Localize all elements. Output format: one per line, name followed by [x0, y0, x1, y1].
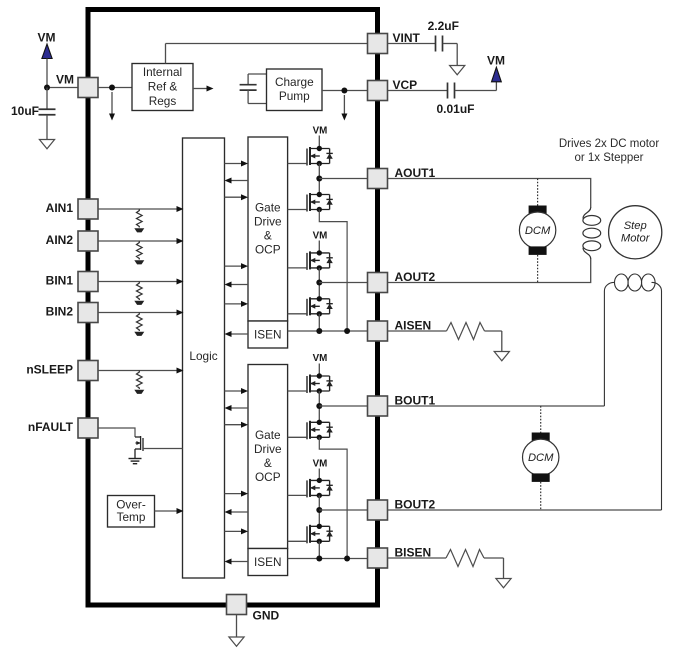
capacitor 2.2uF [388, 43, 436, 45]
svg-text:nFAULT: nFAULT [28, 420, 74, 434]
capacitor 0.01uF [388, 90, 448, 92]
svg-text:Logic: Logic [189, 349, 217, 363]
svg-text:Gate: Gate [255, 201, 281, 215]
svg-text:Drive: Drive [254, 442, 282, 456]
wire ISEN A to Logic [232, 333, 249, 335]
transistor M6 (B low-side 1) [307, 420, 333, 440]
wire M2 source to ISEN bus [319, 210, 347, 332]
wire AOUT2 bus [388, 258, 591, 282]
inductor L (stepper winding B) [604, 282, 614, 406]
wire M7 to M8 (BOUT2 node) [318, 495, 320, 526]
svg-text:AIN1: AIN1 [46, 201, 74, 215]
wire nSLEEP to Logic [98, 370, 177, 372]
svg-text:or 1x Stepper: or 1x Stepper [574, 152, 643, 164]
wire Logic to Gate Drive B (ctrl) [225, 390, 242, 392]
wire GND pin to ground [236, 615, 238, 638]
ground (AIN2 pulldown) [134, 260, 144, 264]
junction [44, 85, 50, 91]
pin AISEN [368, 321, 388, 341]
svg-text:Regs: Regs [149, 94, 177, 108]
block Logic [183, 138, 225, 578]
transistor Q1 (open-drain nFAULT, mirrored) [135, 436, 143, 458]
wire Q1 gate to Logic [143, 448, 183, 450]
svg-text:ISEN: ISEN [254, 555, 282, 569]
block ISEN (A) [248, 321, 288, 348]
wire AOUT1 bus [388, 179, 591, 209]
wire nFAULT to transistor drain [98, 428, 135, 437]
wire charge pump to VCP [322, 90, 368, 92]
wire M4 source to ISEN bus [318, 314, 320, 331]
motor DCM (B) [540, 406, 542, 433]
svg-text:VM: VM [313, 459, 328, 470]
svg-text:OCP: OCP [255, 243, 281, 257]
svg-text:10uF: 10uF [11, 104, 39, 118]
wire BOUT1 bus [388, 405, 605, 407]
wire BOUT2 bus [388, 509, 662, 511]
inductor L (stepper winding A) [583, 208, 591, 219]
pin VINT [368, 34, 388, 54]
wire gate M4 [288, 313, 307, 315]
transistor M3 (A high-side 2) [307, 250, 333, 270]
pin VCP [368, 81, 388, 101]
pin AOUT2 [368, 273, 388, 293]
block Internal Ref & Regs [132, 64, 193, 111]
node BOUT2 [316, 507, 322, 513]
svg-text:0.01uF: 0.01uF [436, 102, 474, 116]
svg-text:VM: VM [56, 73, 74, 87]
power flag VM (VCP) [495, 82, 497, 91]
wire gate M7 [288, 494, 307, 496]
pin BOUT2 [368, 500, 388, 520]
wire VM flag to junction [46, 59, 48, 88]
motor DCM (A) [537, 179, 539, 207]
svg-text:2.2uF: 2.2uF [428, 19, 459, 33]
svg-text:nSLEEP: nSLEEP [26, 363, 73, 377]
arrow Over-Temp to Logic [155, 510, 177, 512]
svg-text:Step: Step [624, 220, 647, 232]
resistor pulldown (AIN1) [137, 209, 143, 228]
svg-text:Pump: Pump [279, 89, 310, 103]
junction (M2 source) [344, 328, 350, 334]
ground (BIN1 pulldown) [134, 301, 144, 305]
wire gate M3 [288, 267, 307, 269]
block Gate Drive & OCP (B bridge) [248, 365, 288, 549]
wire M3 to M4 (AOUT2 node) [318, 268, 320, 299]
svg-text:OCP: OCP [255, 470, 281, 484]
svg-text:&: & [264, 456, 272, 470]
junction [109, 85, 115, 91]
svg-text:VM: VM [313, 353, 328, 364]
wire M1 to M2 (AOUT1 node) [318, 164, 320, 195]
ground (Q1 source) [129, 458, 142, 460]
node AOUT2 [316, 280, 322, 286]
power flag VM [42, 44, 52, 59]
node AOUT1 [316, 176, 322, 182]
junction [341, 88, 347, 94]
wire AIN2 to Logic [98, 240, 177, 242]
resistor pulldown (BIN2) [137, 313, 143, 332]
resistor R-BISEN [388, 557, 447, 559]
svg-text:VM: VM [38, 31, 56, 45]
arrow internal VM feed [111, 92, 113, 114]
svg-text:Charge: Charge [275, 75, 314, 89]
arrow VCP internal feed [343, 95, 345, 114]
svg-text:Temp: Temp [117, 510, 146, 524]
block Gate Drive & OCP (A bridge) [248, 137, 288, 321]
svg-text:&: & [264, 229, 272, 243]
svg-text:BIN1: BIN1 [46, 274, 74, 288]
svg-text:GND: GND [253, 609, 280, 623]
svg-text:Drive: Drive [254, 215, 282, 229]
transistor M1 (A high-side 1) [307, 146, 333, 166]
svg-text:AIN2: AIN2 [46, 233, 74, 247]
ground (AISEN) [494, 352, 509, 361]
pin BOUT1 [368, 396, 388, 416]
junction (M6 source) [344, 556, 350, 562]
wire gate M2 [288, 209, 307, 211]
ground (nSLEEP pulldown) [134, 390, 144, 394]
transistor M2 (A low-side 1) [307, 192, 333, 212]
transistor M4 (A low-side 2) [307, 296, 333, 316]
wire gate M5 [288, 390, 307, 392]
wire Internal Ref to VINT [165, 44, 167, 64]
resistor pulldown (AIN2) [137, 241, 143, 260]
wire M6 source to ISEN bus [319, 437, 347, 558]
svg-text:Ref &: Ref & [148, 80, 178, 94]
svg-text:ISEN: ISEN [254, 328, 282, 342]
wire junction to VM pin [47, 87, 78, 89]
svg-text:Gate: Gate [255, 428, 281, 442]
transistor M8 (B low-side 2) [307, 524, 333, 544]
pin AOUT1 [368, 169, 388, 189]
wire VM pin to Internal Ref [98, 87, 132, 89]
resistor pulldown (nSLEEP) [137, 371, 143, 390]
svg-text:Internal: Internal [143, 65, 182, 79]
motor Step Motor [609, 206, 662, 259]
node BOUT1 [316, 403, 322, 409]
capacitor 10uF [46, 88, 48, 110]
pin GND [227, 595, 247, 615]
IC package outline [88, 10, 378, 606]
svg-text:DCM: DCM [528, 452, 554, 464]
junction (M8 source) [316, 556, 322, 562]
wire gate M6 [288, 436, 307, 438]
arrow ref output [193, 88, 207, 90]
wire M5 to M6 (BOUT1 node) [318, 391, 320, 422]
svg-text:Drives 2x DC motor: Drives 2x DC motor [559, 138, 659, 150]
ground (10uF) [39, 140, 54, 149]
transistor M7 (B high-side 2) [307, 478, 333, 498]
capacitor (flying, charge pump) [247, 74, 249, 85]
resistor pulldown (BIN1) [137, 282, 143, 301]
svg-text:Motor: Motor [621, 232, 651, 244]
ground (GND) [229, 637, 244, 646]
resistor R-AISEN [388, 330, 447, 332]
svg-text:VM: VM [313, 126, 328, 137]
wire BIN2 to Logic [98, 312, 177, 314]
svg-text:DCM: DCM [525, 225, 551, 237]
wire gate M1 [288, 163, 307, 165]
junction (M4 source) [316, 328, 322, 334]
transistor M5 (B high-side 1) [307, 373, 333, 393]
wire Logic to Gate Drive A (ctrl) [225, 163, 242, 165]
wire AIN1 to Logic [98, 208, 177, 210]
wire BIN1 to Logic [98, 281, 177, 283]
block Over-Temp [108, 496, 155, 528]
wire M8 source to ISEN bus [318, 541, 320, 558]
block Charge Pump [267, 69, 323, 111]
ground (BIN2 pulldown) [134, 332, 144, 336]
wire ISEN B bus to BISEN [288, 558, 368, 560]
pin BISEN [368, 548, 388, 568]
wire gate M8 [288, 540, 307, 542]
svg-text:BIN2: BIN2 [46, 305, 74, 319]
ground (BISEN) [496, 579, 511, 588]
ground (2.2uF) [450, 66, 465, 75]
wire ISEN B to Logic [232, 561, 249, 563]
svg-text:VM: VM [487, 54, 505, 68]
wire ISEN A bus to AISEN [288, 330, 368, 332]
svg-text:VM: VM [313, 231, 328, 242]
block ISEN (B) [248, 549, 288, 576]
ground (AIN1 pulldown) [134, 228, 144, 232]
